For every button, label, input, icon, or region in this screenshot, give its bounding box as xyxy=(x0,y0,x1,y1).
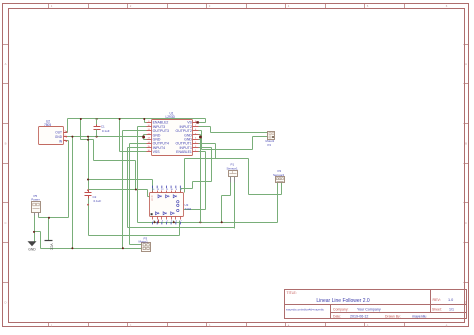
capacitor C2 symbol xyxy=(85,189,92,205)
border tick marks left xyxy=(3,45,9,283)
wire P1 left pin to rail A xyxy=(222,183,231,223)
wire branch y160 to mid column xyxy=(94,161,136,190)
svg-text:REV:: REV: xyxy=(433,298,441,302)
svg-text:TITLE:: TITLE: xyxy=(287,291,297,295)
U1 GND strap right with junction xyxy=(199,135,202,140)
svg-text:A: A xyxy=(465,62,467,66)
wire red stub below U3 pin2 xyxy=(158,220,160,223)
connector P3 Motor1 body xyxy=(142,243,151,252)
U1 VS pin end marker xyxy=(196,121,198,123)
svg-text:Date:: Date: xyxy=(333,314,341,318)
wire U1 INPUT2 to P4 pin1 xyxy=(199,127,268,133)
U1 left pin stubs xyxy=(147,123,152,152)
svg-text:Power: Power xyxy=(31,198,40,202)
border tick marks bottom xyxy=(49,323,405,327)
P4 inner pin squares xyxy=(269,133,274,139)
U1 right pin stubs xyxy=(193,123,199,152)
junction bottom gnd corner xyxy=(71,247,73,249)
svg-text:12: 12 xyxy=(161,189,164,191)
U3 bottom pin name marks xyxy=(152,222,181,225)
wire P2 right pin stub xyxy=(281,183,283,195)
svg-text:11: 11 xyxy=(166,189,169,191)
ic U3 7404 body xyxy=(150,193,184,217)
wire VCC rail drop at x81 xyxy=(81,119,94,161)
P2 inner detail xyxy=(276,178,283,182)
junction VCC rail x81 xyxy=(80,118,82,120)
wire U1 INPUT3 to bottom rail A xyxy=(138,127,278,223)
wire VCC rail to U1 VSS xyxy=(120,119,147,152)
svg-text:0.1uF: 0.1uF xyxy=(102,129,110,133)
connector P2 Sensor2 body xyxy=(276,177,285,183)
junction y189 mid xyxy=(135,189,137,191)
regulator U2 7805 body xyxy=(39,127,64,145)
svg-text:2019-06-12: 2019-06-12 xyxy=(350,314,368,318)
junction VCC rail VSS xyxy=(119,118,121,120)
junction bottom line P3 xyxy=(122,247,124,249)
svg-text:GND: GND xyxy=(28,248,36,252)
U3 inverter glyphs top row xyxy=(158,195,177,198)
junction C2 chain y140 xyxy=(87,139,89,141)
U1 right pin labels xyxy=(176,121,193,154)
svg-text:1/1: 1/1 xyxy=(449,307,454,311)
P5 pin stubs xyxy=(35,213,39,216)
connector P1 Sensor1 body xyxy=(229,171,238,177)
wire VCC rail horizontal xyxy=(68,118,206,120)
U2 pin stubs xyxy=(64,131,68,142)
border grid letters left and right xyxy=(4,62,467,304)
junction rail A U3 pin xyxy=(173,221,175,223)
capacitor C1 symbol xyxy=(94,119,101,137)
svg-text:mayenliu: mayenliu xyxy=(412,314,426,318)
wire U1 ENABLE1 to U3 right xyxy=(184,152,206,210)
U3 inverter glyphs bottom row xyxy=(156,212,175,215)
wire VCC rail to U2 OUT xyxy=(67,119,68,133)
title block outline xyxy=(285,290,467,319)
U2 pin numbers xyxy=(64,130,66,141)
svg-text:1: 1 xyxy=(51,4,53,8)
svg-text:A: A xyxy=(5,62,7,66)
junction rail A red stub xyxy=(157,221,159,223)
svg-text:Linear Line Follower 2.0: Linear Line Follower 2.0 xyxy=(316,298,370,304)
wire U1 right GND strap to rail A xyxy=(200,140,202,223)
junction rail A gnd strap xyxy=(199,221,201,223)
svg-text:7404: 7404 xyxy=(185,207,192,211)
svg-text:Motor1: Motor1 xyxy=(139,240,149,244)
wire C2 chain vertical xyxy=(89,137,180,236)
svg-text:1.0: 1.0 xyxy=(448,298,453,302)
svg-text:3: 3 xyxy=(209,4,211,8)
svg-text:Drawn By:: Drawn By: xyxy=(385,314,401,318)
P5 inner pin squares xyxy=(33,203,40,208)
wire U1 INPUT4 to rail B and P1 xyxy=(128,148,235,229)
svg-text:D: D xyxy=(4,300,6,304)
svg-text:8: 8 xyxy=(180,189,182,191)
svg-text:5: 5 xyxy=(367,4,369,8)
svg-text:B: B xyxy=(5,142,7,146)
wire GND drop to bottom left loop xyxy=(35,137,123,249)
svg-text:9: 9 xyxy=(176,189,178,191)
svg-text:VSS: VSS xyxy=(153,150,161,154)
U1 right pin numbers xyxy=(195,121,197,152)
P1 pin stubs xyxy=(231,177,235,183)
connector P4 Motor2 body xyxy=(268,132,275,140)
svg-text:GND: GND xyxy=(55,135,63,139)
junction rail A U3 pin1 xyxy=(154,221,156,223)
U3 inner right glyphs xyxy=(177,201,179,212)
junction rail A P1 branch xyxy=(221,221,223,223)
svg-text:C: C xyxy=(465,221,467,225)
wire VCC rail to U1 ENABLE2 xyxy=(145,119,147,123)
U3 top pin stubs xyxy=(153,191,181,193)
junction C2 chain y179 xyxy=(87,179,89,181)
wire U1 OUTPUT3 to P3 lower pin xyxy=(123,131,147,249)
wire node row y189 to U3 xyxy=(89,190,150,197)
wire U3 bottom pin risers to rail A xyxy=(155,221,174,223)
wire GND rail horizontal U2 to U1 xyxy=(67,136,144,138)
U3 bottom pin number row xyxy=(152,221,182,223)
U3 bottom pin stubs xyxy=(153,217,181,220)
svg-text:13: 13 xyxy=(157,189,160,191)
junction VCC rail ENABLE2 xyxy=(143,118,145,120)
power symbol VCC xyxy=(45,241,54,251)
svg-text:Sheet:: Sheet: xyxy=(432,307,442,311)
svg-text:L293D: L293D xyxy=(166,115,176,119)
svg-text:6: 6 xyxy=(446,4,448,8)
junction P5 gnd node xyxy=(33,231,35,233)
svg-text:ENABLE1: ENABLE1 xyxy=(176,150,192,154)
svg-text:Sensor1: Sensor1 xyxy=(227,166,239,170)
P1 inner detail xyxy=(230,171,237,174)
U3 top pin name marks xyxy=(152,186,181,189)
svg-text:easyeda.com/editor#id=mayenliu: easyeda.com/editor#id=mayenliu xyxy=(286,308,325,312)
svg-text:VCC: VCC xyxy=(50,244,54,251)
U1 GND strap left with junction xyxy=(142,135,146,140)
ground symbol GND xyxy=(28,241,37,251)
svg-text:Company:: Company: xyxy=(333,307,349,311)
U3 vcc gnd small labels xyxy=(151,196,153,202)
wire P5 right pin to VCC symbol and U2 IN xyxy=(39,141,69,241)
border tick marks top xyxy=(49,4,405,9)
svg-text:Your Company: Your Company xyxy=(357,307,381,311)
U1 left pin labels xyxy=(153,121,169,154)
wire P2 left pin stub xyxy=(277,183,279,195)
wire P5 left pin to GND xyxy=(34,213,36,242)
wire U1 OUTPUT4 to P3 upper pin xyxy=(130,144,147,245)
connector P5 Power body xyxy=(32,202,41,213)
wire U1 OUTPUT1 to P2 right pin xyxy=(185,144,282,195)
svg-text:4: 4 xyxy=(288,4,290,8)
junction VCC symbol node xyxy=(48,217,50,219)
junction GND rail C2 chain xyxy=(87,136,89,138)
svg-text:7805: 7805 xyxy=(44,123,51,127)
svg-text:10: 10 xyxy=(170,189,173,191)
svg-text:P4: P4 xyxy=(268,143,272,147)
svg-text:2: 2 xyxy=(130,4,132,8)
svg-text:OUT: OUT xyxy=(55,130,62,134)
U1 left pin numbers xyxy=(147,121,150,152)
svg-text:B: B xyxy=(465,142,467,146)
U3 top pin number row xyxy=(152,189,183,191)
P3 inner pin squares xyxy=(143,244,149,250)
ic U1 L293D body xyxy=(152,120,193,156)
U3 pin1 dark marker xyxy=(151,213,153,215)
title block row dividers xyxy=(285,290,467,319)
junction GND rail x72 xyxy=(71,136,73,138)
wire U1 OUTPUT2 to P4 pin2 xyxy=(199,131,268,150)
wire VCC rail to U1 VS pin xyxy=(199,119,206,123)
svg-text:C: C xyxy=(4,221,6,225)
svg-text:Sensor2: Sensor2 xyxy=(273,173,285,177)
junction GND rail C1 bottom xyxy=(96,136,98,138)
junction VCC rail C1 xyxy=(96,118,98,120)
svg-text:0.1uF: 0.1uF xyxy=(94,199,102,203)
wire branch y179 to U3 pin14 xyxy=(89,180,153,193)
svg-text:14: 14 xyxy=(152,189,155,191)
border tick marks right xyxy=(464,45,469,283)
wire U1 INPUT1 to U3 top xyxy=(181,148,212,193)
